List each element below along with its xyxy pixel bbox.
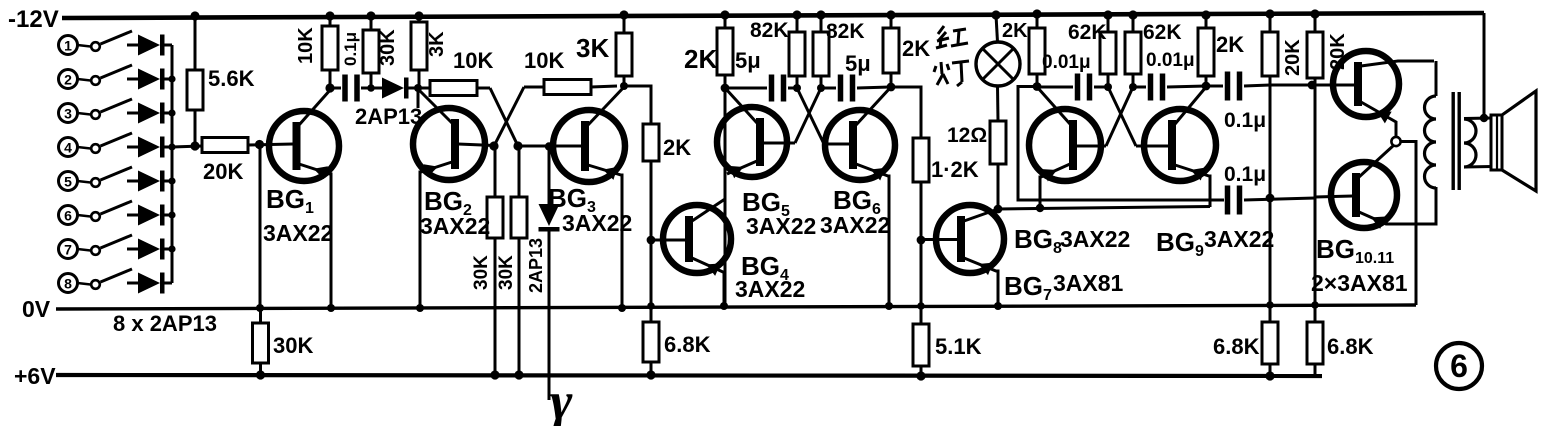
- junction: [817, 84, 825, 92]
- junction: [1266, 301, 1274, 309]
- wire 0V rail: [56, 305, 1416, 309]
- resistor 3K BG3 load: [576, 15, 632, 87]
- junction: [1129, 83, 1137, 91]
- junction: [991, 10, 1000, 19]
- junction: [1265, 371, 1274, 380]
- wire BG3 base lead: [518, 145, 581, 148]
- label 0V: [22, 296, 51, 322]
- resistor 6.8K left: [1213, 322, 1278, 376]
- svg-text:10K: 10K: [295, 27, 317, 64]
- resistor 3K vert: [411, 16, 448, 89]
- wire diode bus: [171, 45, 174, 283]
- capacitor 5u left: [725, 48, 797, 102]
- resistor 2K BG9 load: [1198, 15, 1244, 86]
- resistor 2K to BG4 base: [624, 86, 691, 240]
- junction: [816, 10, 825, 19]
- junction: [545, 142, 553, 150]
- label BG1: [266, 184, 314, 217]
- resistor 5.1K: [913, 324, 982, 376]
- label 3AX22 BG1: [263, 220, 333, 246]
- svg-text:2: 2: [64, 72, 72, 88]
- svg-text:82K: 82K: [750, 19, 789, 42]
- svg-text:0.1μ: 0.1μ: [341, 32, 360, 66]
- resistor 6.8K right: [1307, 322, 1374, 376]
- junction: [647, 302, 655, 310]
- svg-text:30K: 30K: [471, 255, 492, 290]
- key switch contact 2: [59, 65, 133, 89]
- wire BG9 base lead: [1136, 145, 1169, 148]
- svg-text:5.1K: 5.1K: [935, 334, 982, 359]
- junction: [1308, 81, 1317, 90]
- wire 20K to BG1 base: [248, 144, 293, 145]
- svg-text:0.01μ: 0.01μ: [1146, 50, 1195, 71]
- transistor BG9: [1144, 87, 1216, 207]
- junction: [619, 10, 628, 19]
- svg-text:62K: 62K: [1068, 21, 1107, 44]
- wire secondary bottom: [1464, 165, 1492, 169]
- svg-text:6.8K: 6.8K: [664, 332, 711, 357]
- wire cross 10K2 to BG2 base: [494, 87, 524, 146]
- capacitor 5u right: [821, 51, 891, 102]
- label Chinese hong (red): [936, 26, 968, 48]
- label 3AX81 BG7: [1053, 270, 1124, 296]
- svg-text:10K: 10K: [524, 48, 564, 73]
- svg-text:30K: 30K: [377, 29, 399, 66]
- svg-text:3: 3: [64, 106, 72, 122]
- junction: [1128, 10, 1137, 19]
- diode D4 2AP13: [127, 137, 172, 158]
- junction: [190, 11, 199, 20]
- transistor BG4: [663, 199, 731, 306]
- transistor BG7: [936, 205, 1004, 306]
- svg-text:2K: 2K: [1216, 32, 1244, 57]
- svg-text:2×3AX81: 2×3AX81: [1311, 270, 1408, 296]
- wire BG2 collector drop: [417, 88, 420, 108]
- wire BG10 base bias column: [1269, 76, 1272, 322]
- svg-text:0.01μ: 0.01μ: [1042, 52, 1091, 73]
- resistor 20K: [202, 138, 248, 185]
- resistor 62K left: [1068, 15, 1116, 87]
- wire -12V top rail: [62, 13, 1484, 18]
- lamp red (hong deng): [976, 15, 1020, 86]
- junction: [618, 304, 626, 312]
- label 3AX22 BG9: [1204, 226, 1274, 252]
- resistor 30K lower: [253, 309, 314, 375]
- svg-text:1·2K: 1·2K: [931, 157, 979, 182]
- wire cross 82K1 to BG6 base: [797, 88, 824, 144]
- junction: [325, 83, 334, 92]
- transformer secondary winding: [1464, 119, 1476, 167]
- junction: [994, 302, 1002, 310]
- svg-text:3AX22: 3AX22: [1204, 226, 1274, 252]
- wire cross 82K2 to BG5 base: [795, 88, 821, 143]
- junction: [256, 370, 265, 379]
- junction: [646, 370, 655, 379]
- label 3AX22 BG6: [820, 212, 890, 238]
- wire BG5 collector column: [724, 75, 727, 306]
- diode D7 2AP13: [127, 239, 172, 260]
- transformer primary winding: [1425, 61, 1437, 224]
- resistor 30K below BG2 b: [496, 149, 527, 375]
- junction: [168, 75, 175, 82]
- junction: [1310, 9, 1319, 18]
- svg-text:30K: 30K: [496, 255, 517, 290]
- svg-text:6.8K: 6.8K: [1213, 334, 1260, 359]
- junction: [916, 371, 925, 380]
- svg-text:2K: 2K: [663, 135, 691, 160]
- junction: [256, 304, 264, 312]
- junction: [620, 82, 628, 90]
- svg-text:3AX22: 3AX22: [263, 220, 333, 246]
- junction: [514, 370, 523, 379]
- junction: [416, 304, 424, 312]
- junction: [325, 11, 334, 20]
- key switch contact 4: [59, 133, 133, 157]
- junction: [367, 84, 375, 92]
- resistor 20K right: [1307, 14, 1349, 78]
- svg-text:4: 4: [64, 140, 72, 156]
- label BG9: [1156, 227, 1204, 260]
- junction: [1103, 10, 1112, 19]
- resistor 1.2K: [891, 87, 979, 240]
- svg-text:3AX22: 3AX22: [746, 213, 816, 239]
- label BG8: [1014, 224, 1062, 257]
- svg-text:20K: 20K: [203, 159, 243, 184]
- label Chinese deng (lamp): [934, 61, 969, 86]
- svg-text:3K: 3K: [426, 31, 448, 57]
- diode 2AP13 horizontal: [371, 78, 418, 99]
- svg-text:20K: 20K: [1282, 39, 1304, 76]
- wire secondary top: [1464, 117, 1492, 121]
- label 3AX22 BG3: [562, 210, 632, 236]
- junction: [1311, 301, 1319, 309]
- label BG3: [548, 183, 596, 216]
- svg-text:3AX22: 3AX22: [420, 213, 490, 239]
- junction: [1265, 9, 1274, 18]
- resistor 2K BG6 load: [883, 15, 930, 87]
- label gamma output: [550, 371, 573, 426]
- key switch contact 6: [59, 201, 133, 225]
- key switch contact 1: [59, 31, 133, 55]
- svg-text:1: 1: [64, 38, 72, 54]
- diode D5 2AP13: [127, 171, 172, 192]
- resistor 10K horiz left: [418, 48, 493, 96]
- wire +6V rail: [56, 375, 1322, 376]
- svg-text:8: 8: [64, 276, 72, 292]
- transistor BG5: [717, 89, 787, 178]
- label BG7: [1004, 271, 1052, 304]
- capacitor 0.1u lower: [1224, 163, 1315, 215]
- junction: [513, 141, 522, 150]
- wire BG8 collector loop: [1018, 87, 1224, 201]
- junction: [994, 205, 1003, 214]
- label BG6: [833, 185, 881, 218]
- junction: [1032, 9, 1041, 18]
- resistor 62K right: [1125, 15, 1182, 87]
- svg-text:2AP13: 2AP13: [355, 104, 422, 129]
- diode D3 2AP13: [127, 103, 172, 124]
- junction: [647, 236, 656, 245]
- resistor 82K right: [813, 15, 865, 88]
- diode D6 2AP13: [127, 205, 172, 226]
- transistor BG10: [1333, 51, 1434, 137]
- junction: [327, 304, 335, 312]
- svg-text:82K: 82K: [826, 20, 865, 43]
- wire BG10 base: [1270, 84, 1355, 87]
- svg-text:3AX81: 3AX81: [1053, 270, 1124, 296]
- wire BG8 base lead: [1077, 145, 1107, 148]
- transistor BG1: [269, 89, 339, 309]
- resistor 5.6K: [187, 16, 255, 146]
- junction: [168, 143, 175, 150]
- transistor BG3: [553, 87, 625, 309]
- junction: [1480, 114, 1488, 122]
- label 2AP13: [355, 104, 422, 129]
- wire -12V to speaker: [1483, 13, 1486, 118]
- junction: [1201, 10, 1210, 19]
- svg-text:6: 6: [64, 208, 72, 224]
- svg-text:3AX22: 3AX22: [820, 212, 890, 238]
- svg-text:5μ: 5μ: [735, 48, 761, 73]
- junction: [1266, 194, 1275, 203]
- diode D8 2AP13: [127, 273, 172, 294]
- svg-text:0.1μ: 0.1μ: [1224, 163, 1266, 186]
- junction: [168, 245, 175, 252]
- svg-text:7: 7: [64, 242, 72, 258]
- junction: [168, 109, 175, 116]
- label 8 x 2AP13: [113, 311, 217, 336]
- junction: [885, 302, 893, 310]
- svg-text:2AP13: 2AP13: [526, 238, 546, 293]
- wire BG7 base bias: [920, 240, 923, 324]
- svg-text:-12V: -12V: [8, 6, 59, 33]
- key switch contact 7: [59, 235, 133, 259]
- label +6V: [14, 363, 56, 389]
- svg-text:2K: 2K: [684, 44, 717, 74]
- label BG5: [742, 187, 790, 220]
- key switch contact 8: [59, 269, 133, 293]
- label -12V: [8, 6, 59, 33]
- label BG2: [424, 186, 472, 219]
- junction: [1202, 82, 1211, 91]
- svg-text:5.6K: 5.6K: [208, 66, 255, 91]
- junction: [917, 236, 926, 245]
- figure number 6: [1436, 343, 1482, 389]
- wire BG11 base: [1315, 196, 1353, 197]
- capacitor 0.01u left: [1037, 52, 1108, 101]
- svg-text:3AX22: 3AX22: [735, 276, 805, 302]
- label BG10-11: [1316, 234, 1394, 267]
- svg-text:30K: 30K: [273, 333, 313, 358]
- svg-text:10K: 10K: [453, 48, 493, 73]
- svg-text:6.8K: 6.8K: [1327, 334, 1374, 359]
- svg-text:8 x 2AP13: 8 x 2AP13: [113, 311, 217, 336]
- resistor 30K below BG2 a: [471, 149, 503, 375]
- wire BG7 base: [921, 238, 958, 241]
- svg-text:6: 6: [1450, 348, 1468, 384]
- capacitor 0.1u: [330, 32, 371, 102]
- svg-text:0V: 0V: [22, 296, 51, 322]
- junction: [168, 211, 175, 218]
- label 2K lamp branch: [1002, 20, 1028, 42]
- wire BG6 base lead: [824, 143, 850, 146]
- wire cross 62K2 to BG8 base: [1106, 87, 1133, 146]
- label 2x3AX81: [1311, 270, 1408, 296]
- svg-text:2K: 2K: [902, 36, 930, 61]
- wire BG1 base bias: [259, 148, 262, 309]
- transistor BG2: [413, 89, 485, 309]
- junction: [1033, 82, 1042, 91]
- resistor 20K left: [1262, 14, 1304, 76]
- diode D1 2AP13: [127, 35, 172, 56]
- resistor 10K vert: [295, 16, 338, 88]
- svg-text:5μ: 5μ: [845, 51, 871, 76]
- resistor 10K horiz right: [524, 48, 617, 95]
- wire cross 10K1 to BG3 base: [490, 88, 518, 146]
- junction: [721, 84, 730, 93]
- junction: [917, 302, 925, 310]
- junction: [887, 83, 896, 92]
- wire BG7 collector to emitters: [998, 207, 1210, 210]
- junction: [414, 84, 422, 92]
- junction: [886, 10, 895, 19]
- label BG4: [741, 251, 789, 284]
- junction: [792, 10, 801, 19]
- junction: [168, 177, 175, 184]
- label 3AX22 BG4: [735, 276, 805, 302]
- junction: [414, 11, 423, 20]
- diode 2AP13 vertical: [526, 149, 560, 400]
- wire BG11 base bias column: [1314, 78, 1317, 322]
- capacitor 0.1u upper: [1206, 72, 1270, 133]
- junction: [720, 10, 729, 19]
- svg-text:2K: 2K: [1002, 20, 1028, 42]
- junction: [490, 370, 499, 379]
- wire center tap to 0V: [1401, 142, 1417, 306]
- junction: [366, 11, 375, 20]
- svg-text:3AX22: 3AX22: [562, 210, 632, 236]
- resistor 6.8K below BG4: [643, 322, 711, 375]
- svg-text:3K: 3K: [576, 33, 609, 63]
- wire BG4 base bias: [650, 240, 653, 322]
- transistor BG11: [1331, 145, 1436, 229]
- junction: [489, 141, 498, 150]
- svg-text:5: 5: [64, 174, 72, 190]
- svg-text:γ: γ: [550, 371, 573, 426]
- resistor 12 ohm: [947, 86, 1006, 209]
- label 3AX22 BG2: [420, 213, 490, 239]
- transistor BG6: [825, 88, 895, 306]
- junction: [1036, 204, 1044, 212]
- resistor 2K BG5 load: [684, 15, 733, 75]
- svg-text:0.1μ: 0.1μ: [1224, 109, 1266, 132]
- wire BG5 base lead: [764, 142, 796, 145]
- junction: [190, 141, 199, 150]
- wire BG4 base: [651, 239, 686, 242]
- transistor BG8: [1029, 88, 1101, 208]
- key switch contact 5: [59, 167, 133, 191]
- svg-text:62K: 62K: [1143, 21, 1182, 44]
- junction: [720, 302, 728, 310]
- resistor 30K vert: [363, 16, 399, 88]
- wire BG2 base lead: [458, 144, 494, 146]
- label 3AX22 BG8: [1060, 226, 1130, 252]
- junction: [1104, 83, 1112, 91]
- resistor 2K BG8 load: [1029, 14, 1045, 87]
- transformer core: [1452, 92, 1461, 190]
- svg-text:+6V: +6V: [14, 363, 56, 389]
- label 3AX22 BG5: [746, 213, 816, 239]
- wire bus to 20K: [172, 146, 202, 147]
- junction: [255, 140, 264, 149]
- key switch contact 3: [59, 99, 133, 123]
- capacitor 0.01u right: [1133, 50, 1206, 101]
- junction: [793, 84, 801, 92]
- svg-text:3AX22: 3AX22: [1060, 226, 1130, 252]
- wire cross 62K1 to BG9 base: [1108, 87, 1136, 146]
- node output center tap: [1391, 137, 1400, 146]
- diode D2 2AP13: [127, 69, 172, 90]
- resistor 82K left: [750, 15, 805, 88]
- speaker: [1491, 91, 1536, 191]
- svg-text:12Ω: 12Ω: [947, 124, 987, 147]
